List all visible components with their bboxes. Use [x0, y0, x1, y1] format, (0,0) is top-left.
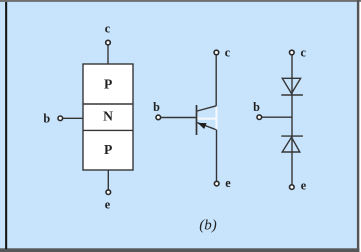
svg-text:P: P: [104, 142, 112, 157]
svg-text:e: e: [105, 198, 111, 212]
svg-text:c: c: [105, 21, 111, 35]
svg-text:N: N: [103, 109, 113, 124]
svg-text:c: c: [225, 46, 231, 60]
svg-text:b: b: [153, 100, 160, 114]
svg-text:b: b: [43, 111, 50, 125]
svg-text:e: e: [301, 178, 307, 192]
svg-text:P: P: [104, 76, 112, 91]
svg-text:(b): (b): [199, 217, 217, 233]
svg-text:c: c: [300, 46, 306, 60]
svg-text:e: e: [225, 176, 231, 190]
svg-text:b: b: [253, 100, 260, 114]
